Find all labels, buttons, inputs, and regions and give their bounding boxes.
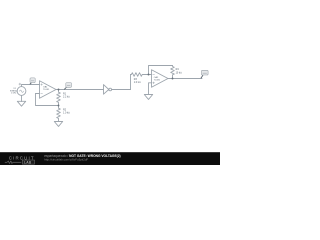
- junction dot OA2 output: [172, 78, 174, 80]
- svg-text:TL081: TL081: [154, 79, 161, 81]
- feedback wire up from output dot: [172, 75, 174, 79]
- op-amp OA1: [40, 81, 57, 99]
- probe icon P2 on OA1 output wire: [64, 83, 71, 90]
- wire V1 bottom to ground: [21, 95, 23, 101]
- wire OA1 output to NOT gate: [56, 89, 104, 91]
- svg-text:http://circuitlab.com/c/6vFu3p: http://circuitlab.com/c/6vFu3pk2dF: [44, 157, 88, 161]
- junction dot OA2 minus node: [148, 74, 150, 76]
- voltage source V1: [17, 87, 26, 96]
- logo LAB box: [22, 160, 34, 164]
- resistor R4 (vertical, feedback): [171, 66, 175, 75]
- NOT gate X1: [104, 85, 109, 95]
- OA2 minus sign: [153, 74, 155, 76]
- junction dot R1/R2: [58, 105, 60, 107]
- probe icon P1 on V1 wire: [30, 78, 35, 84]
- V1 plus terminal mark: [19, 83, 21, 85]
- OA2 output wire: [168, 78, 202, 80]
- footer bar: [0, 152, 220, 165]
- ground G2 under OA2: [144, 95, 152, 100]
- svg-text:TL081: TL081: [43, 89, 50, 91]
- ground G1: [17, 101, 25, 106]
- resistor R2 (vertical): [57, 106, 61, 122]
- junction dot OA1 output: [58, 89, 60, 91]
- probe icon P3 on OA2 output wire: [201, 70, 208, 78]
- feedback top wire to OA2 minus node: [149, 66, 173, 75]
- wire NOT gate output to riser: [112, 89, 131, 91]
- ground G3 under R2: [54, 122, 62, 127]
- op-amp OA2: [152, 70, 169, 88]
- OA1 minus sign: [41, 93, 43, 95]
- svg-text:10 kΩ: 10 kΩ: [176, 71, 183, 74]
- OA2 plus sign: [153, 82, 155, 84]
- svg-text:1.0 kΩ: 1.0 kΩ: [134, 81, 141, 84]
- wire riser to R3 level: [130, 75, 132, 90]
- svg-text:1 kHz: 1 kHz: [11, 93, 16, 95]
- resistor R1 (vertical): [57, 90, 61, 106]
- wire R3 to OA2 minus stub: [149, 74, 152, 76]
- wire OA1 feedback: minus input to R1/R2 junction: [36, 94, 59, 106]
- OA2 plus input stub to ground: [149, 83, 152, 95]
- svg-text:1.0 kΩ: 1.0 kΩ: [63, 112, 70, 115]
- NOT gate bubble: [109, 88, 112, 91]
- svg-text:2.2 kΩ: 2.2 kΩ: [63, 96, 70, 99]
- logo waveform: [5, 161, 22, 164]
- resistor R3 (horizontal): [131, 73, 149, 77]
- V1 internal plus/minus: [20, 90, 24, 92]
- svg-text:LAB: LAB: [24, 160, 32, 164]
- OA1 plus sign: [41, 84, 43, 86]
- wire V1 top to op-amp plus input: [22, 85, 36, 87]
- OA1 input stubs: [36, 85, 40, 94]
